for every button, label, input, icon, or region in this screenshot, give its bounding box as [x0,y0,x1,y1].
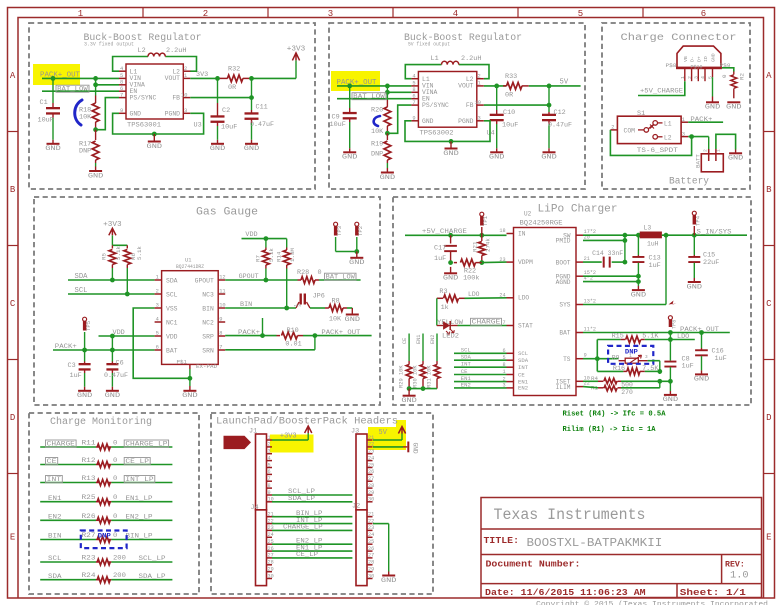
svg-text:6: 6 [412,94,415,100]
svg-text:C: C [10,299,16,309]
svg-text:24: 24 [268,532,274,538]
svg-text:R19: R19 [371,141,383,149]
junction [93,82,98,87]
svg-text:GND: GND [726,104,742,112]
svg-text:Battery: Battery [669,177,709,188]
svg-text:BAT_LOW: BAT_LOW [353,93,386,101]
svg-text:1uF: 1uF [434,255,446,263]
wire battery pin2 to gnd [716,134,736,149]
svg-text:EN1: EN1 [416,335,422,344]
svg-text:GND: GND [694,376,710,384]
svg-text:28: 28 [368,483,374,489]
svg-text:1uF: 1uF [70,372,82,380]
flag PV__BAT [224,436,252,449]
svg-text:SDA: SDA [48,573,62,580]
svg-text:5: 5 [268,462,271,468]
svg-text:NC1: NC1 [166,319,178,326]
ground for J2 [388,572,390,576]
svg-text:2.2uH: 2.2uH [461,55,481,63]
ic U3 TPS63001 [126,64,183,119]
svg-text:INT: INT [518,364,529,371]
capacitor C12 [548,112,550,114]
svg-text:EN1_LP: EN1_LP [126,495,153,502]
wire VOUT to R32 [190,77,220,79]
testpoint TP8 on BAT [668,316,672,320]
net LDO row wire [596,340,598,372]
svg-text:C17: C17 [434,245,446,253]
svg-text:R10: R10 [287,327,299,335]
svg-text:3: 3 [184,108,187,114]
svg-text:D-: D- [690,56,696,62]
svg-text:S_IN/SYS: S_IN/SYS [697,229,732,237]
resistor R17 DNP [95,130,97,140]
svg-text:24: 24 [368,532,374,538]
connector J5 USB shell [677,46,721,68]
svg-text:R23: R23 [82,555,96,562]
svg-text:GND: GND [711,53,717,62]
connector J1 [256,434,267,510]
resistor R14 [286,239,288,248]
svg-text:IN: IN [518,230,526,237]
svg-text:TP4: TP4 [695,215,702,226]
net J2 gnd wire [373,523,389,525]
svg-text:INT_LP: INT_LP [125,476,154,483]
junction [51,76,56,81]
svg-text:EN2_LP: EN2_LP [126,514,153,521]
highlight PACK+_OUT module2 [331,71,380,91]
svg-text:GPOUT: GPOUT [239,273,259,281]
connector J2 [356,510,367,586]
svg-text:GND: GND [45,145,61,153]
net BAT wire [583,332,730,334]
svg-text:VOUT: VOUT [458,83,474,90]
svg-text:GND: GND [130,110,142,117]
svg-text:12: 12 [219,275,225,281]
svg-text:7: 7 [120,92,123,98]
svg-text:Copyright © 2015 (Texas Instru: Copyright © 2015 (Texas Instruments Inco… [536,600,768,605]
resistor R23 row SCL [40,561,96,563]
svg-text:1: 1 [184,73,187,79]
ground for C11 [251,140,253,144]
svg-text:BQ27441DRZ: BQ27441DRZ [176,264,204,270]
svg-text:200: 200 [113,555,126,562]
svg-text:GND: GND [401,397,417,405]
title block outer [481,498,762,598]
svg-text:2: 2 [203,9,208,19]
svg-text:C6: C6 [116,360,124,368]
frame ticks [8,8,775,474]
wire S1 pin3 to battery [688,136,709,138]
junction R18 bottom [93,127,98,132]
junction FB node [249,76,254,81]
svg-text:+3V3: +3V3 [103,221,121,229]
svg-text:EN2: EN2 [48,514,62,521]
svg-text:R7: R7 [255,255,262,262]
inductor L1 loop wire [405,65,441,79]
resistor R18 [95,78,97,95]
wire R33 to 5V [529,85,581,87]
svg-text:28: 28 [268,560,274,566]
resistor R22 [454,262,457,264]
ground for C3 [84,387,86,391]
testpoint TP6 on SYS [669,301,677,305]
svg-text:5.1k: 5.1k [136,246,143,260]
capacitor C2 [217,78,219,103]
inductor L2 loop wire [113,57,148,72]
svg-text:SDA: SDA [518,357,529,364]
svg-text:GND: GND [631,291,647,299]
svg-text:GND: GND [663,396,679,404]
svg-text:R28: R28 [297,269,309,277]
svg-text:REV:: REV: [725,561,745,570]
svg-text:C2: C2 [222,107,230,115]
svg-text:Riset (R4) -> Ifc = 0.5A: Riset (R4) -> Ifc = 0.5A [563,411,667,419]
svg-text:L1: L1 [664,120,672,127]
svg-text:GND: GND [412,443,419,454]
svg-text:R26: R26 [82,513,96,520]
ground for R19 [386,168,388,173]
net SDA wire [68,279,155,281]
svg-text:LED2: LED2 [442,333,459,340]
net SYS to SW wire [662,234,747,236]
svg-text:GND: GND [105,392,121,400]
svg-text:9: 9 [412,116,415,122]
svg-text:R13: R13 [82,475,96,482]
svg-text:270: 270 [621,389,633,396]
ground for U4 [450,141,452,148]
svg-text:U1: U1 [185,258,191,264]
svg-text:18: 18 [499,228,505,234]
svg-text:TS: TS [563,356,571,363]
svg-text:BIN: BIN [240,301,252,309]
svg-text:0: 0 [113,475,117,482]
svg-text:8: 8 [412,87,415,93]
svg-text:Gas Gauge: Gas Gauge [196,207,258,219]
svg-text:C1: C1 [40,99,48,107]
svg-text:J3: J3 [351,427,359,435]
svg-text:7.5K: 7.5K [642,365,659,373]
wire R32 to +3V3 [251,77,296,79]
svg-text:10K: 10K [329,315,342,323]
svg-text:J2: J2 [352,503,360,511]
capacitor C11 [251,110,253,113]
svg-text:1.0: 1.0 [730,571,749,582]
resistor R7 [265,239,267,248]
svg-text:8: 8 [268,483,271,489]
svg-text:CHARGE: CHARGE [47,441,76,448]
svg-text:1: 1 [268,435,271,441]
svg-text:C14 33nF: C14 33nF [592,250,623,257]
svg-text:GND: GND [489,154,505,162]
module box headers [211,413,433,594]
svg-text:ID: ID [703,56,709,62]
wire GND loop under U3 [113,113,204,134]
svg-text:TP8: TP8 [672,320,678,329]
connector J3 [356,434,367,510]
resistor R20 [386,86,388,100]
svg-text:2: 2 [687,76,693,79]
svg-text:4: 4 [156,317,159,323]
svg-text:CE_LP: CE_LP [296,551,318,558]
svg-text:S1: S1 [637,110,645,118]
svg-text:R33: R33 [505,73,517,81]
svg-text:GND: GND [244,145,260,153]
svg-text:INT: INT [461,361,472,368]
ground for C6 [111,387,113,391]
wire resistor bank bottom [409,388,437,390]
svg-text:7: 7 [412,100,415,106]
svg-text:5V fixed output: 5V fixed output [408,42,450,48]
ic U3 left pins [119,70,126,72]
svg-text:10uF: 10uF [38,117,54,125]
testpoint TP1 [480,212,484,216]
ground for resistor bank [408,389,410,396]
svg-text:BAT: BAT [166,347,178,354]
svg-text:B: B [766,185,772,195]
svg-text:NC2: NC2 [202,319,214,326]
svg-text:R27: R27 [82,532,96,539]
svg-text:25: 25 [368,539,374,545]
capacitor C3 [84,350,86,362]
svg-text:1: 1 [156,275,159,281]
svg-text:D: D [766,413,771,423]
svg-text:0: 0 [318,269,322,277]
svg-text:DNP: DNP [98,533,111,540]
svg-text:EN2: EN2 [461,381,471,388]
ic U3 right pins [183,70,190,72]
svg-text:DNP: DNP [79,148,91,156]
svg-text:274k: 274k [484,238,491,252]
svg-text:TP2: TP2 [357,226,364,236]
svg-text:U2: U2 [524,211,532,218]
net +5V_CHARGE wire lipo [405,234,507,236]
highlight +3V3 headers [270,435,314,453]
svg-text:13*2: 13*2 [584,299,596,305]
svg-text:Rilim (R1) -> Iic = 1A: Rilim (R1) -> Iic = 1A [563,426,657,434]
svg-text:FB: FB [172,94,180,101]
svg-text:SCL: SCL [166,291,178,298]
svg-text:Texas Instruments: Texas Instruments [494,506,646,524]
svg-text:J4: J4 [251,504,259,512]
module box Buck-Boost Regulator 5V [329,23,585,189]
svg-text:BATT: BATT [694,154,701,168]
svg-text:R32: R32 [228,66,240,74]
net VINA wire [96,84,119,86]
capacitor C1 [52,78,54,103]
net GND header J3 [373,446,403,448]
svg-text:0: 0 [113,494,117,501]
svg-text:STAT: STAT [518,322,533,329]
testpoint TP3 [334,222,338,226]
svg-text:29: 29 [368,490,374,496]
svg-text:GND: GND [541,154,557,162]
annotation blue dashed DNP box R27 [81,531,127,549]
svg-text:L3: L3 [644,224,652,231]
svg-text:0.47uF: 0.47uF [104,372,128,379]
svg-text:GND: GND [182,392,198,400]
svg-text:SRP: SRP [202,333,214,340]
annotation blue dashed DNP box R9 [608,346,653,364]
svg-text:0R: 0R [228,84,236,92]
svg-text:J1: J1 [249,427,257,435]
svg-text:E: E [10,533,15,543]
net SRP wire [225,335,276,337]
svg-text:9: 9 [584,353,587,359]
svg-text:4: 4 [700,76,706,79]
net VDD wire [99,335,155,337]
svg-text:10: 10 [475,100,481,106]
junction gnd loop module2 [449,139,454,144]
module box Buck-Boost Regulator 3.3V [29,23,315,189]
svg-text:+3V3: +3V3 [280,433,297,441]
ic U1 right pins [218,279,225,281]
resistor R24 row SDA [40,579,96,581]
ground for C15 [693,278,695,282]
svg-text:1: 1 [682,117,685,123]
svg-text:TPS63001: TPS63001 [127,121,161,129]
svg-text:CE: CE [402,338,408,344]
supply +3V3 gas gauge [111,235,113,245]
svg-text:GND: GND [687,283,703,291]
ic U4 right pins [477,78,484,80]
svg-text:1uF: 1uF [715,355,727,363]
svg-text:4: 4 [268,455,271,461]
svg-text:R20: R20 [371,107,383,115]
supply +3V3 module1 [295,60,297,78]
svg-text:C11: C11 [256,104,268,112]
ground for C1 [52,140,54,144]
testpoint TP4 [692,211,696,215]
net TS wire [583,358,619,360]
svg-text:LDO: LDO [518,295,529,302]
svg-text:2: 2 [702,149,708,152]
resistor R5 [111,245,113,248]
resistor R33 [503,85,507,87]
svg-text:BAT_LOW: BAT_LOW [326,274,355,281]
net +3V3 header wires [272,439,308,441]
svg-text:6: 6 [120,86,123,92]
svg-text:E: E [766,533,771,543]
svg-text:11*2: 11*2 [584,327,596,333]
svg-text:LDO: LDO [677,333,689,341]
net PACK+_OUT wire module2 [337,85,411,87]
svg-text:TPS63002: TPS63002 [420,129,454,137]
i2c control wires [454,352,507,354]
svg-text:R21: R21 [471,241,478,252]
svg-text:10uF: 10uF [502,122,518,130]
module box Charge Monitoring [29,413,199,594]
net BAT_LOW wire [42,90,119,92]
net VINA wire module2 [387,91,411,93]
svg-text:30: 30 [268,573,274,579]
svg-text:1: 1 [680,76,686,79]
wire R15 to LDO label [645,339,695,341]
svg-text:CHARGE_LP: CHARGE_LP [125,441,167,448]
svg-text:GND: GND [422,118,434,125]
svg-text:PGND: PGND [165,110,181,117]
svg-text:SDA_LP: SDA_LP [288,495,315,502]
capacitor C8 [669,333,671,361]
svg-text:GND: GND [705,104,721,112]
capacitor C9 [349,86,351,108]
svg-text:L2: L2 [138,47,146,55]
capacitor C6 [111,336,113,362]
svg-text:SRN: SRN [202,347,214,354]
svg-text:3.3V fixed output: 3.3V fixed output [84,42,134,48]
svg-text:+5V_CHARGE: +5V_CHARGE [422,228,467,236]
svg-text:0.47uF: 0.47uF [548,122,572,129]
svg-text:L2: L2 [664,134,672,141]
svg-text:P$8: P$8 [666,62,678,69]
wire JP6 to R8 [310,307,325,309]
svg-text:BOOT: BOOT [556,259,571,266]
junction R10 out [313,333,318,338]
svg-text:GND: GND [380,174,396,182]
ground for U1 [189,386,191,391]
ground for battery [735,150,737,154]
svg-text:R24: R24 [82,572,96,579]
svg-text:4: 4 [412,74,415,80]
capacitor C13 [637,235,639,255]
svg-text:GND: GND [443,150,459,158]
switch S1 [617,116,681,143]
ground for connector pin5 [712,77,714,96]
svg-text:Date: 11/6/2015 11:06:23 AM: Date: 11/6/2015 11:06:23 AM [485,587,646,598]
junction R21 bottom [479,260,484,265]
wire VSS return [133,308,190,378]
svg-text:TITLE:: TITLE: [484,536,520,546]
svg-text:BIN: BIN [48,533,62,540]
svg-text:30: 30 [368,497,374,503]
ground for R17 [95,167,97,172]
svg-text:L1: L1 [431,55,439,63]
svg-text:24: 24 [368,455,374,461]
net BIN wire [225,307,296,309]
svg-text:C12: C12 [554,109,566,117]
net BAT_LOW gas gauge [319,279,361,281]
svg-text:GND: GND [147,143,163,151]
highlight 5V headers [368,427,406,450]
ic U4 TPS63002 [418,72,476,128]
svg-text:GPOUT: GPOUT [195,277,214,284]
svg-text:21: 21 [584,256,590,262]
svg-text:CE_LP: CE_LP [125,458,149,465]
svg-text:R11: R11 [82,440,96,447]
svg-text:5: 5 [120,73,123,79]
net 5V header wires [373,439,402,441]
svg-text:2: 2 [156,289,159,295]
svg-text:A: A [766,71,772,81]
svg-text:VSS: VSS [166,305,178,312]
svg-text:29: 29 [268,567,274,573]
svg-text:VDD: VDD [166,333,178,340]
svg-text:SDA_LP: SDA_LP [139,573,166,580]
svg-text:6: 6 [701,9,706,19]
junction C17 bottom [448,260,453,265]
annotation blue mark module1 [75,100,82,125]
svg-text:1: 1 [78,9,83,19]
svg-text:25: 25 [368,462,374,468]
svg-text:CHARGE_LP: CHARGE_LP [283,524,323,531]
svg-text:21: 21 [368,512,374,518]
module box LiPo Charger [393,197,751,405]
svg-text:3: 3 [478,116,481,122]
svg-text:5.1k: 5.1k [268,248,275,262]
junction FB [249,95,254,100]
net VDPM wire [482,261,507,264]
svg-text:26: 26 [368,546,374,552]
svg-text:3: 3 [682,131,685,137]
